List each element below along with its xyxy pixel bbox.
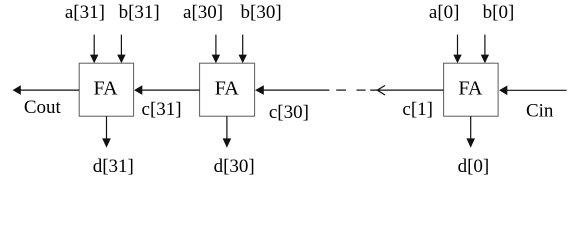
svg-text:b[31]: b[31] bbox=[119, 2, 160, 23]
wire Cout output arrow bbox=[13, 85, 80, 95]
full adder U31 box bbox=[79, 63, 133, 116]
wire Cin input arrow bbox=[499, 86, 566, 96]
wire c[1] carry arrow with open head bbox=[370, 86, 443, 96]
wire carry chain dash 1 bbox=[336, 89, 346, 91]
svg-text:FA: FA bbox=[215, 78, 240, 100]
wire a[0] input arrow bbox=[453, 35, 461, 64]
wire c[30] carry arrow bbox=[255, 85, 329, 95]
wire a[30] input arrow bbox=[212, 35, 220, 64]
svg-text:a[30]: a[30] bbox=[183, 2, 223, 23]
full adder U30 box bbox=[200, 63, 255, 116]
svg-text:a[31]: a[31] bbox=[65, 2, 105, 23]
svg-text:FA: FA bbox=[458, 78, 483, 100]
svg-text:d[31]: d[31] bbox=[93, 156, 134, 177]
svg-text:c[31]: c[31] bbox=[142, 99, 182, 120]
wire c[31] carry arrow bbox=[134, 85, 200, 95]
svg-text:c[1]: c[1] bbox=[402, 99, 433, 120]
wire d[31] output arrow bbox=[102, 116, 111, 148]
svg-text:d[30]: d[30] bbox=[214, 156, 255, 177]
wire b[0] input arrow bbox=[481, 35, 489, 64]
wire d[30] output arrow bbox=[223, 116, 232, 148]
svg-text:c[30]: c[30] bbox=[269, 102, 309, 123]
svg-text:Cin: Cin bbox=[526, 101, 554, 122]
svg-text:b[0]: b[0] bbox=[483, 2, 515, 23]
wire a[31] input arrow bbox=[90, 35, 98, 64]
svg-text:a[0]: a[0] bbox=[429, 2, 460, 23]
wire b[30] input arrow bbox=[239, 35, 247, 64]
svg-text:b[30]: b[30] bbox=[241, 2, 282, 23]
wire d[0] output arrow bbox=[466, 116, 475, 148]
svg-text:FA: FA bbox=[93, 78, 118, 100]
full adder U0 box bbox=[444, 63, 499, 116]
wire b[31] input arrow bbox=[117, 35, 125, 64]
svg-text:Cout: Cout bbox=[24, 97, 62, 118]
wire carry chain dash 2 bbox=[357, 89, 366, 91]
svg-text:d[0]: d[0] bbox=[458, 156, 490, 177]
